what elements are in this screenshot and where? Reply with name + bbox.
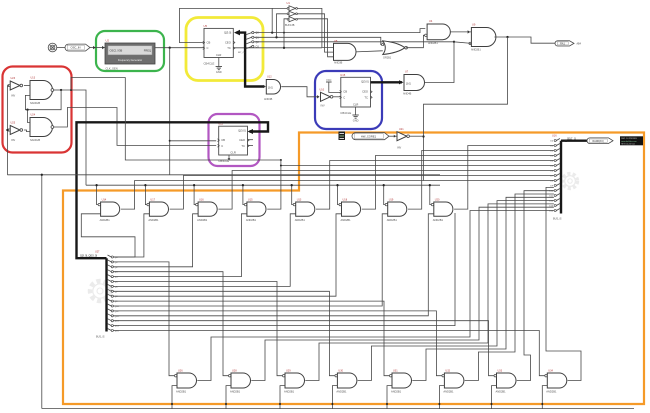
nand-gate U24: [30, 118, 53, 137]
wire U13 output riser to bus tap: [316, 161, 554, 210]
wire outer-left vertical: [41, 174, 43, 409]
svg-text:CEO: CEO: [239, 138, 245, 142]
wire rail 1 (y160 feedback): [125, 77, 281, 160]
junction U9 output node: [506, 36, 508, 38]
wire net Q8 to U18 input2: [113, 214, 341, 296]
ground symbol below U5: [218, 58, 220, 63]
svg-text:HW_CORE1: HW_CORE1: [361, 134, 377, 138]
counter U15: [341, 77, 371, 107]
svg-text:CB4CLE: CB4CLE: [340, 111, 351, 115]
wire U33 input2 stub from bottom net: [492, 386, 497, 409]
svg-text:U21: U21: [399, 128, 404, 131]
svg-text:AND2B1: AND2B1: [336, 390, 347, 394]
wire upper feedback line y77: [71, 77, 125, 90]
svg-text:U23: U23: [11, 77, 16, 80]
and-gate U18 (mid row 6): [342, 202, 361, 216]
wire net Q5 to U29 input1: [113, 282, 282, 376]
wire net Q2 toward U9: [254, 41, 454, 43]
wire net Q7 to U30 input1: [113, 291, 334, 375]
and-gate U4: [427, 24, 450, 40]
buffer stack U1: [289, 6, 296, 11]
wire U13 output node: [53, 89, 61, 91]
svg-text:U15: U15: [248, 198, 253, 201]
gear watermark right: [563, 174, 578, 189]
svg-text:U24: U24: [31, 114, 36, 117]
svg-text:U34: U34: [548, 369, 553, 372]
wire net Q2 to U16 input2: [113, 214, 198, 267]
wire U30 input2 stub from bottom net: [332, 386, 337, 409]
wire inverter input feed vertical: [6, 86, 8, 175]
wire U5 TC output line: [233, 47, 322, 49]
and-gate U34 (bottom row 8): [547, 373, 567, 388]
svg-text:SELT_[3: SELT_[3: [567, 138, 576, 140]
svg-text:AND2B1: AND2B1: [387, 218, 398, 222]
svg-text:Q[3..0]_Q[15..0]: Q[3..0]_Q[15..0]: [80, 254, 97, 257]
svg-text:AB4: AB4: [577, 43, 582, 46]
wire OR output to U4 input2: [406, 35, 427, 47]
wire U12 output to inverter U10: [281, 87, 318, 97]
wire CLK vertical down to purple counter CE: [169, 48, 171, 175]
bus vertical RADR column: [560, 141, 562, 214]
svg-text:U13: U13: [297, 198, 302, 201]
wire rail drop to U15 input1: [243, 185, 244, 204]
svg-text:U12: U12: [267, 76, 272, 79]
wire U13 output exits red box: [61, 90, 86, 185]
junction U13 output: [60, 89, 62, 91]
ground symbol below U15: [355, 107, 357, 111]
svg-text:CB: CB: [221, 138, 225, 142]
svg-text:AND2B1: AND2B1: [391, 390, 402, 394]
svg-text:U20: U20: [435, 198, 440, 201]
svg-text:U30: U30: [338, 369, 343, 372]
wire rail drop to U17 input1: [145, 185, 146, 204]
wire buffer1 input from Q0: [272, 8, 287, 32]
wire net Q1 to OR gate input: [254, 37, 383, 44]
svg-text:AND2B1: AND2B1: [100, 218, 111, 222]
junction inverter input feed: [6, 129, 8, 131]
svg-text:NAND2B: NAND2B: [30, 102, 40, 105]
svg-text:Q[3:0]: Q[3:0]: [224, 31, 232, 35]
svg-text:Q[3:0]: Q[3:0]: [238, 128, 246, 132]
wire U18 output riser to bus tap: [362, 156, 554, 210]
wire net Q4 to U15 input2: [113, 214, 247, 277]
wire connector to OSC_IN pad: [57, 47, 65, 49]
svg-text:CEO: CEO: [225, 41, 231, 45]
svg-text:AND4B: AND4B: [264, 98, 273, 101]
wire frequency generator output to node CLK: [155, 47, 204, 49]
gear watermark left: [90, 281, 110, 301]
wire latch cross to U24 input1: [28, 110, 31, 123]
and-gate U14 (mid row 1): [101, 202, 120, 216]
and-gate U13 (mid row 5): [296, 202, 315, 216]
frequency generator U2: [105, 43, 155, 64]
and-gate U26 (bottom row 1): [177, 373, 197, 388]
svg-text:CB: CB: [207, 41, 211, 45]
svg-text:AND2B1: AND2B1: [197, 218, 208, 222]
green highlight box (frequency generator group): [96, 31, 164, 71]
wire CE feed of U5 from top rail: [180, 8, 273, 42]
and-gate U19 (mid row 7): [388, 202, 407, 216]
red highlight box (input latch group): [3, 67, 72, 153]
wire U24 output up to purple counter C: [53, 108, 216, 146]
wire U21 output join node: [410, 135, 424, 137]
wire net Q1 to U26 input1: [113, 262, 174, 376]
and-gate U29 (bottom row 3): [285, 373, 305, 388]
and-gate U8: [334, 43, 357, 60]
inverter U10: [321, 92, 331, 101]
svg-text:AND2B1: AND2B1: [433, 218, 444, 222]
pad RA1: [555, 41, 574, 46]
wire U33 output riser: [517, 191, 554, 381]
wire net Q3 to U28 input1: [113, 272, 228, 376]
wire U9 output to pad RA1: [494, 37, 555, 43]
wire U26 output riser: [197, 211, 554, 381]
svg-text:AND2B1: AND2B1: [471, 49, 481, 52]
wire rail drop to U19 input1: [384, 185, 385, 204]
svg-text:GND: GND: [353, 119, 359, 123]
wire U10 output to U15 C pin: [333, 96, 341, 98]
wire U20 output riser to bus tap: [454, 146, 554, 210]
svg-text:AND2B1: AND2B1: [284, 390, 295, 394]
svg-text:CLR: CLR: [216, 53, 221, 57]
wire U11 CEO stub: [248, 139, 254, 141]
purple highlight box (counter U11 group): [209, 114, 260, 166]
wire U4 output to U9: [451, 31, 472, 33]
wire net Q12 to U20 input2: [113, 214, 433, 316]
svg-text:U8: U8: [334, 39, 338, 43]
wire U8 output to OR gate: [356, 51, 383, 52]
svg-text:OR2B1: OR2B1: [383, 57, 392, 60]
and-gate U12 (bus AND4B): [266, 80, 280, 95]
wire net Q6 to U13 input2: [113, 214, 295, 287]
wire buffer3 output to U8 input3: [297, 19, 333, 57]
wire bus to pad RADR: [561, 139, 587, 141]
and-gate U28 (bottom row 2): [231, 373, 251, 388]
wire buffer2 output to U8 input2: [297, 14, 333, 52]
wire U31 input2 stub from bottom net: [387, 386, 392, 409]
wire INV U25 output to U24 input2: [24, 130, 30, 132]
svg-text:NAND2B: NAND2B: [30, 139, 40, 142]
wire U32 output riser: [465, 194, 554, 381]
and-gate U33 (bottom row 7): [497, 373, 517, 388]
stamp block small: [339, 132, 346, 141]
svg-text:U27: U27: [95, 251, 100, 254]
svg-text:CLR: CLR: [230, 150, 235, 154]
inverter U23: [10, 81, 20, 90]
wire rail drop to U14 input1: [97, 185, 98, 204]
wire rail drop to U18 input1: [338, 185, 339, 204]
yellow highlight box (counter U5 group): [186, 18, 263, 81]
svg-text:TC: TC: [364, 95, 368, 99]
and-gate U16 (mid row 3): [198, 202, 217, 216]
svg-text:INV: INV: [11, 139, 16, 142]
wire net Q9 to U31 input1: [113, 301, 389, 376]
wire U7 output to U9 input2: [425, 42, 472, 83]
and-gate U30 (bottom row 4): [337, 373, 357, 388]
wire net Q14 stub right: [113, 213, 455, 326]
svg-text:U16: U16: [552, 135, 557, 138]
wire U11 CLR stub down: [228, 155, 230, 158]
svg-text:INV: INV: [11, 95, 16, 98]
svg-text:REG 00-3321-A: REG 00-3321-A: [621, 142, 635, 145]
bus taps D0-D14 on RADR column: [556, 139, 560, 141]
bus Q[3:0] from U5 to AND4B U12: [237, 33, 265, 87]
svg-text:U28: U28: [232, 369, 237, 372]
and-gate U15 (mid row 4): [247, 202, 266, 216]
svg-text:U18: U18: [343, 198, 348, 201]
svg-text:AND2B1: AND2B1: [176, 390, 187, 394]
bus taps Q0-Q3 of counter U5: [246, 33, 252, 35]
svg-text:TC: TC: [241, 144, 245, 148]
svg-text:C: C: [343, 95, 345, 99]
svg-text:C: C: [207, 46, 209, 50]
svg-text:C: C: [221, 144, 223, 148]
and-gate U31 (bottom row 5): [392, 373, 412, 388]
and-gate U9: [471, 28, 496, 47]
svg-text:AND2B1: AND2B1: [546, 390, 557, 394]
svg-text:U29: U29: [286, 369, 291, 372]
svg-text:U17: U17: [150, 198, 155, 201]
and-gate U7 (bus AND4B): [404, 75, 425, 91]
wire outer-bottom horizontal: [42, 408, 634, 410]
wire buffer1 output to U8 input1: [297, 8, 333, 47]
wire U9 node down and left: [424, 37, 508, 181]
wire U32 input2 stub from bottom net: [439, 386, 444, 409]
wire rail 2 (feedback rail y174.8): [7, 174, 440, 176]
inverter U21: [397, 132, 407, 141]
svg-text:U13: U13: [31, 77, 36, 80]
wire U34 output riser: [546, 187, 581, 380]
wire VCC to U15 CB: [329, 86, 341, 92]
svg-text:FREQ: FREQ: [144, 49, 151, 53]
junction CLK at x169: [169, 47, 171, 49]
svg-text:AND2B1: AND2B1: [230, 390, 241, 394]
svg-text:CB4CLE: CB4CLE: [204, 62, 215, 66]
wire net Q0 to U4 input: [254, 29, 425, 33]
wire U31 output riser: [412, 197, 554, 380]
wire HW_CORE1 to inverter U21: [389, 135, 397, 137]
wire INV U23 output to U13 input1: [24, 85, 30, 87]
wire net Q15 to U34 input1: [113, 331, 544, 376]
pad RADR[3:0]: [587, 138, 613, 144]
svg-text:BUS_/S: BUS_/S: [96, 336, 105, 339]
bus Q[3:0] from U15 to AND4B U7: [371, 81, 403, 83]
and-gate U17 (mid row 2): [149, 202, 168, 216]
pad OSC_IN: [65, 44, 90, 51]
wire buffer3 input from TC net: [284, 19, 287, 48]
pad HW_CORE1: [352, 133, 389, 140]
wire net Q13 to U33 input1: [113, 321, 494, 376]
svg-text:AND3B: AND3B: [334, 62, 343, 65]
wire net Q10 to U19 input2: [113, 214, 387, 306]
wire U13 feedback to inputs: [25, 90, 61, 110]
wire U34 input2 stub from bottom net: [542, 386, 547, 409]
counter U11: [219, 126, 248, 155]
or-gate U3: [383, 41, 405, 55]
blue highlight box (counter U15 group): [315, 71, 382, 129]
svg-text:U2: U2: [106, 39, 110, 43]
wire buffer2 input from Q1: [277, 14, 288, 38]
svg-text:U5: U5: [204, 24, 208, 28]
and-gate U20 (mid row 8): [434, 202, 453, 216]
svg-text:U10: U10: [320, 89, 325, 92]
wire rail 3 (gate input rail y185.2): [86, 184, 440, 186]
wire rail drop to U16 input1: [194, 185, 195, 204]
inverter U25: [10, 126, 20, 135]
svg-text:U26: U26: [178, 369, 183, 372]
svg-text:U19: U19: [389, 198, 394, 201]
wire U17 output riser to bus tap: [170, 176, 554, 210]
svg-text:CLR: CLR: [353, 102, 358, 106]
wire OSC_IN to frequency generator: [90, 47, 105, 49]
wire rail drop to U13 input1: [292, 185, 293, 204]
svg-text:AND2B1: AND2B1: [428, 42, 438, 45]
svg-text:U16: U16: [199, 198, 204, 201]
svg-text:AND2B1: AND2B1: [341, 218, 352, 222]
svg-text:[3:0]: [3:0]: [406, 83, 411, 86]
svg-text:BUF13B: BUF13B: [285, 24, 295, 27]
wire U14 input2 feedback loop: [81, 214, 135, 257]
svg-text:U1: U1: [287, 1, 291, 5]
svg-text:U4: U4: [429, 19, 433, 23]
wire U30 output riser: [358, 201, 554, 381]
svg-text:GND: GND: [216, 70, 222, 74]
wire U29 input2 stub from bottom net: [280, 386, 285, 409]
svg-text:CLK_GEN: CLK_GEN: [106, 67, 118, 71]
svg-text:AND2B1: AND2B1: [496, 390, 507, 394]
wire to purple counter CE pin: [170, 140, 217, 142]
svg-text:RADR[3:0]: RADR[3:0]: [593, 140, 604, 143]
wire rail drop to U20 input1: [430, 185, 431, 204]
svg-text:AND2B1: AND2B1: [295, 218, 306, 222]
svg-text:RA1: RA1: [560, 42, 565, 45]
svg-text:AND2B1: AND2B1: [443, 390, 454, 394]
svg-text:U25: U25: [11, 122, 16, 125]
svg-text:U9: U9: [472, 23, 476, 27]
wire U15 output riser to bus tap: [267, 160, 281, 209]
wire U29 output riser: [305, 204, 554, 381]
svg-text:AND2B1: AND2B1: [148, 218, 159, 222]
svg-text:TC: TC: [227, 46, 231, 50]
svg-text:U31: U31: [393, 369, 398, 372]
orange highlight box (decoder array group): [63, 133, 644, 405]
svg-text:U14: U14: [102, 198, 107, 201]
svg-text:CB: CB: [343, 90, 347, 94]
svg-text:INV: INV: [397, 147, 402, 150]
svg-text:BUS_/S: BUS_/S: [553, 218, 562, 221]
wire net Q0 to U17 input2: [113, 214, 149, 257]
wire U19 output riser to bus tap: [408, 151, 554, 210]
svg-text:U15: U15: [340, 73, 345, 77]
svg-text:Frequency Generator: Frequency Generator: [118, 58, 142, 62]
svg-text:AND4B: AND4B: [403, 93, 412, 96]
svg-text:OSC_IN: OSC_IN: [70, 46, 80, 50]
wire U28 output riser: [251, 207, 554, 380]
wire U28 input2 stub from bottom net: [226, 386, 231, 409]
counter U5: [204, 28, 233, 57]
svg-text:BIT_/S: BIT_/S: [238, 52, 245, 54]
svg-text:INV: INV: [321, 105, 326, 108]
wire U14 output riser to bus tap: [121, 181, 554, 210]
wire U11 TC stub: [248, 144, 254, 146]
bus tap column left (Q0-Q15): [105, 258, 107, 331]
connector J1 (oscillator input): [48, 43, 57, 52]
wire U16 output riser to bus tap: [218, 171, 554, 210]
wire U26 input2 stub from bottom net: [172, 386, 177, 409]
nand-gate U13: [30, 81, 53, 100]
svg-text:U33: U33: [498, 369, 503, 372]
and-gate U32 (bottom row 6): [444, 373, 464, 388]
wire net Q11 to U32 input1: [113, 311, 441, 376]
watermark stamp box: [620, 136, 643, 145]
svg-text:[3:0]: [3:0]: [268, 87, 273, 90]
svg-text:AND2B1: AND2B1: [246, 218, 257, 222]
svg-text:OSC1 X3B: OSC1 X3B: [110, 49, 123, 53]
svg-text:U32: U32: [445, 369, 450, 372]
svg-text:Q[3:0]: Q[3:0]: [361, 80, 369, 84]
svg-text:CEO: CEO: [362, 90, 368, 94]
bus Q[3:0] from U11 to left bus column: [77, 122, 269, 258]
